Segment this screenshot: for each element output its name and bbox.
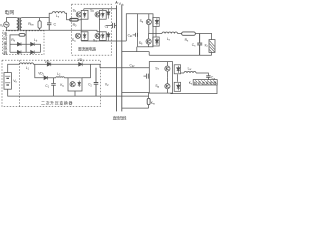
inverter2 frame	[149, 62, 172, 94]
wire to leg1	[78, 19, 81, 21]
svg-text:超声波换能器: 超声波换能器	[194, 80, 216, 85]
wire top bus of bridge	[84, 9, 117, 11]
wire AC top	[6, 18, 16, 22]
diode D2	[107, 9, 110, 19]
capacitor C_d2 plates	[146, 74, 148, 79]
wire boost out to inverter2	[100, 67, 149, 69]
diode box DS7	[174, 65, 180, 74]
rectifier dashed box	[72, 4, 112, 55]
capacitor C (filter)	[47, 18, 51, 31]
resistor R_b oval	[19, 34, 25, 37]
transistor S5	[146, 19, 151, 24]
wire battery bottom rail	[8, 89, 149, 96]
sensor K_w	[147, 98, 150, 104]
svg-text:Kw: Kw	[151, 101, 155, 106]
battery V_b	[4, 73, 11, 90]
diode VD1	[47, 63, 51, 67]
load box transducer	[193, 80, 217, 85]
diode box DS8	[174, 82, 180, 91]
transistor S2	[95, 12, 100, 17]
svg-text:C: C	[54, 23, 57, 27]
svg-text:器: 器	[3, 50, 7, 55]
svg-text:二次升压变换器: 二次升压变换器	[41, 99, 73, 105]
wire AC bottom	[6, 27, 16, 30]
wire leg2 vertical	[97, 19, 99, 32]
wire inverter2 output	[181, 72, 184, 74]
diode VD2	[44, 76, 48, 80]
wire diode mid link 2	[176, 74, 178, 82]
svg-text:电网: 电网	[4, 9, 14, 16]
diode B1	[17, 42, 21, 46]
wire diode mid link	[155, 26, 157, 37]
wire oval feeds	[10, 30, 26, 52]
load box K upper	[209, 40, 215, 53]
svg-text:Vdc: Vdc	[119, 2, 125, 7]
inverter1 frame	[138, 14, 153, 47]
DC bus line -	[121, 5, 123, 111]
hatch fill transducer box	[195, 80, 217, 85]
transformer T1	[17, 18, 19, 31]
capacitor C_w	[206, 76, 210, 80]
wire group	[2, 2, 217, 112]
inductor L_s	[52, 12, 65, 14]
wire top rail mid	[34, 63, 48, 65]
capacitor C2	[94, 68, 99, 96]
switch box K0	[68, 78, 82, 91]
wire bus to inverter1 top	[126, 14, 137, 41]
transistor S4	[95, 33, 100, 38]
wire load return upper	[149, 52, 211, 56]
DC bus line +	[116, 5, 118, 111]
grid load dashed box	[3, 31, 44, 55]
inductor L_w	[184, 72, 196, 74]
wire inverter1 output	[148, 33, 162, 35]
transistor S8	[165, 84, 170, 89]
bridge rail lower	[10, 51, 41, 53]
capacitor C_s	[197, 34, 202, 56]
wire bridge dc out mid	[106, 24, 112, 26]
transistor S7	[165, 66, 170, 71]
wire secondary top rail	[22, 13, 52, 17]
inductor L2	[56, 77, 64, 78]
arrow V_dc	[116, 2, 118, 4]
AC source V_s	[4, 22, 9, 27]
diode B4	[31, 50, 35, 54]
transistor S1	[76, 12, 81, 17]
resistor R_lim	[39, 18, 41, 31]
diode B2	[31, 42, 35, 46]
wire load return lower	[171, 85, 217, 94]
boost converter dashed box	[2, 60, 100, 106]
wire battery top rail	[8, 64, 20, 72]
wire battery compartment divider (dashed)	[18, 60, 20, 106]
wire mid branch left	[35, 64, 44, 78]
svg-text:直流母线: 直流母线	[113, 115, 127, 120]
wire secondary bottom rail	[22, 30, 97, 32]
diode box DS6	[153, 37, 159, 46]
svg-text:整流器电路: 整流器电路	[78, 47, 96, 52]
inductor L_s1	[162, 32, 178, 34]
diode VD3	[79, 63, 83, 67]
transistor S6	[146, 39, 151, 44]
transistor S3	[75, 33, 80, 38]
diode D4	[107, 32, 110, 41]
capacitor C_d1 plates	[136, 33, 138, 37]
bridge rail upper	[10, 44, 41, 52]
svg-text:Rb: Rb	[11, 38, 15, 43]
wire bridge bottom rail to bus	[81, 39, 126, 42]
wire inverter1 bottom to bus	[122, 47, 149, 52]
capacitor C_d plates	[113, 23, 115, 28]
inductor L1	[20, 63, 34, 64]
capacitor C1	[51, 78, 56, 96]
resistor R_s	[182, 32, 196, 35]
wire bus to sensor loop	[122, 92, 149, 108]
diode B3	[17, 50, 21, 54]
wire L to box A	[65, 13, 70, 20]
diode box DS5	[153, 17, 159, 26]
resistor R0 (entry)	[70, 19, 78, 22]
wire leg1 vertical	[80, 19, 82, 32]
